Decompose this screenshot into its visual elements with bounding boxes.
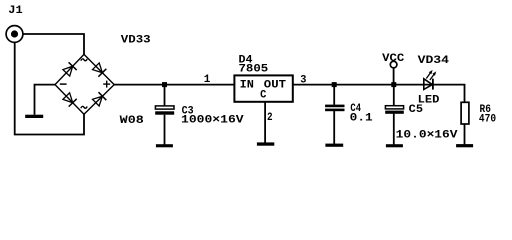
wire C5 upper (393, 85, 395, 106)
wire C4 upper (333, 85, 335, 105)
svg-text:0.1: 0.1 (350, 113, 373, 125)
svg-text:VCC: VCC (382, 53, 405, 65)
voltage regulator D4 7805 box (234, 75, 292, 101)
connector J1 (6, 26, 23, 43)
junction VCC C5 node (391, 82, 396, 87)
ground C4 (325, 144, 343, 147)
svg-text:1000×16V: 1000×16V (181, 114, 244, 126)
polarity mark + plus (103, 81, 110, 88)
capacitor C3 (155, 106, 174, 115)
wire bridge plus to regulator input (114, 84, 234, 86)
capacitor C4 (325, 105, 344, 112)
bridge diode bottom-left (63, 93, 77, 107)
bridge diode top-left (63, 62, 77, 76)
wire R6 lower (464, 124, 466, 145)
junction C4 node (332, 82, 337, 87)
wire J1 sleeve to bridge bottom (15, 42, 84, 134)
svg-text:VD34: VD34 (418, 55, 450, 67)
svg-text:2: 2 (267, 112, 273, 124)
ground regulator (257, 142, 274, 145)
polarity mark - minus (60, 83, 67, 85)
wire regulator output rail (293, 84, 466, 86)
polarity mark ~ top (81, 59, 87, 61)
polarity mark ~ bottom (81, 106, 87, 108)
pin 2 wire (264, 102, 266, 142)
power symbol VCC (390, 61, 397, 84)
bridge diode top-right (93, 63, 107, 77)
svg-text:7805: 7805 (239, 64, 269, 76)
wire bridge minus to ground (35, 85, 56, 115)
junction C3 node (162, 82, 167, 87)
LED VD34 (424, 70, 436, 90)
wire C3 upper (164, 85, 166, 106)
wire C5 lower (393, 114, 395, 145)
wire J1 tip to bridge top (23, 34, 84, 55)
svg-text:W08: W08 (120, 115, 145, 127)
ground C5 (386, 144, 403, 147)
wire C3 lower (164, 115, 166, 145)
wire C4 lower (333, 111, 335, 144)
svg-text:OUT: OUT (264, 79, 287, 91)
svg-text:IN: IN (240, 79, 254, 91)
svg-text:10.0×16V: 10.0×16V (396, 130, 458, 142)
ground bridge (25, 115, 43, 118)
svg-text:1: 1 (204, 74, 211, 86)
svg-text:C: C (260, 89, 267, 101)
bridge rectifier VD33 diamond (55, 54, 114, 114)
bridge diode bottom-right (93, 92, 107, 106)
resistor R6 (461, 102, 469, 124)
svg-text:J1: J1 (8, 5, 23, 17)
ground C3 (156, 144, 173, 147)
capacitor C5 (385, 106, 404, 114)
wire LED to R6 corner (464, 85, 466, 103)
svg-text:470: 470 (479, 114, 496, 126)
ground R6 (456, 144, 473, 147)
svg-text:LED: LED (418, 95, 440, 107)
svg-text:VD33: VD33 (121, 35, 151, 47)
